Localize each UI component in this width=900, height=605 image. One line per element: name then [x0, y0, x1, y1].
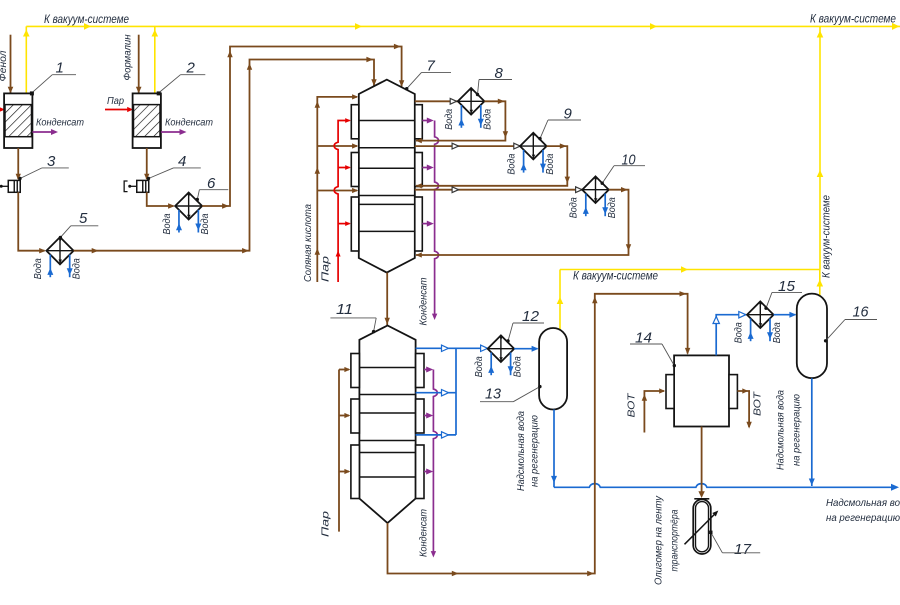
svg-text:Конденсат: Конденсат [418, 277, 430, 325]
pipe: column 7 vapor line 1 (brown) [415, 100, 458, 102]
reactor 14 [674, 355, 729, 426]
pipe: vessel 2 bottoms to pump 4 (brown) [146, 148, 148, 179]
svg-text:К вакуум-системе: К вакуум-системе [810, 14, 896, 26]
svg-text:К вакуум-системе: К вакуум-системе [821, 195, 833, 278]
column 7 internal trays [359, 120, 415, 122]
svg-text:Фенол: Фенол [0, 50, 9, 81]
svg-text:16: 16 [853, 304, 870, 321]
water outlet of exchanger 15 [769, 319, 771, 342]
water inlet of exchanger 9 [523, 150, 525, 173]
water outlet of exchanger 6 [197, 210, 199, 233]
heat exchanger 12 [488, 335, 515, 362]
feeder 17 (olygomer discharge) [694, 498, 709, 500]
pipe: ВОТ outlet from reactor 14 (brown) [737, 391, 749, 427]
vessel 16 (separator) [797, 294, 827, 379]
svg-text:Конденсат: Конденсат [418, 509, 430, 557]
svg-text:Олигомер на ленту: Олигомер на ленту [653, 495, 665, 585]
water inlet of exchanger 10 [585, 194, 587, 217]
pipe: vessel 13 vapor riser (yellow) [559, 270, 561, 332]
pipe: надсмольная вода main line (blue) [554, 484, 897, 488]
svg-text:Вода: Вода [545, 153, 556, 174]
svg-text:17: 17 [734, 541, 752, 558]
pipe: Соляная кислота feed to column 7 (brown) [317, 97, 357, 282]
pipe: pump 4 to heat exchanger 6 (brown) [147, 192, 174, 206]
pipe: column 7 vapor line 2 (brown) [415, 145, 520, 147]
svg-text:1: 1 [56, 60, 64, 77]
svg-text:ВОТ: ВОТ [626, 392, 638, 418]
pipe: reactor 14 bottoms to feeder 17 (brown) [701, 427, 703, 493]
svg-text:Вода: Вода [772, 322, 783, 343]
pipe: condensate header of column 11 (purple) [433, 370, 437, 556]
column 7 (distillation column) [359, 80, 415, 273]
adjustment arrow of feeder 17 [685, 513, 717, 545]
svg-text:Пар: Пар [320, 256, 332, 282]
vessel 1 (hatched heater) [4, 93, 32, 148]
pipe: column 11 bottoms to reactor 14 (brown) [388, 294, 688, 574]
svg-text:Вода: Вода [72, 258, 83, 279]
pipe: Пар feed to column 11 (brown) [338, 370, 340, 532]
svg-text:на регенерацию: на регенерацию [826, 512, 900, 524]
vessel 13 (separator) [539, 328, 567, 410]
pipe: HX12 to vessel 13 (blue) [514, 348, 537, 350]
svg-text:7: 7 [427, 58, 436, 75]
column 11 internal trays [359, 367, 415, 369]
column 11 (distillation column) [359, 326, 415, 524]
svg-text:Надсмольная вода: Надсмольная вода [515, 411, 527, 491]
water outlet of exchanger 10 [604, 194, 606, 217]
svg-text:Конденсат: Конденсат [36, 117, 84, 129]
svg-text:Вода: Вода [444, 108, 455, 129]
pipe: column 7 vapor line 3 (brown) [415, 189, 582, 191]
svg-text:Вода: Вода [506, 153, 517, 174]
svg-text:2: 2 [186, 60, 196, 77]
pipe: Формалин feed into vessel 2 (brown) [138, 35, 140, 93]
column 11 section jackets [351, 354, 360, 388]
pipe: pump 3 to heat exchanger 5 (brown) [18, 192, 44, 250]
svg-text:Пар: Пар [320, 511, 332, 537]
pipe: vessel 16 vapor riser (yellow) [819, 270, 821, 297]
pipe: vessel 16 water out (blue) [811, 378, 813, 486]
connection point on vessel 2 [157, 91, 161, 95]
pipe: Пар feed to column 7 (red) [334, 121, 349, 283]
pipe: column 11 vapor lines to HX12 (blue) [416, 347, 488, 349]
pump 3 [8, 180, 20, 192]
svg-text:Вода: Вода [483, 108, 494, 129]
svg-text:Вода: Вода [474, 356, 485, 377]
pipe: HX5 outlet long run to column 7 (brown) [74, 60, 374, 251]
svg-text:Конденсат: Конденсат [165, 117, 213, 129]
pipe: HX15 to vessel 16 (blue) [774, 314, 796, 316]
pipe: HX9 return to column 7 (brown) [416, 146, 567, 186]
svg-text:Вода: Вода [33, 258, 44, 279]
pipe: HX6 outlet run to column 7 (brown) [202, 47, 401, 207]
pipe: vessel 1 bottoms to pump 3 (brown) [17, 148, 19, 179]
svg-text:на регенерацию: на регенерацию [529, 415, 541, 487]
svg-text:Вода: Вода [569, 197, 580, 218]
pump 4 [137, 180, 149, 192]
pipe: condensate out of vessel 1 (purple) [32, 131, 52, 133]
svg-text:Надсмольная вода: Надсмольная вода [775, 390, 787, 470]
svg-text:на регенерацию: на регенерацию [791, 394, 803, 466]
pipe: vessel 1 vapor riser (yellow) [25, 26, 27, 93]
svg-text:ВОТ: ВОТ [752, 390, 764, 416]
svg-text:13: 13 [485, 386, 502, 403]
pipe: vacuum header to К вакуум-системе (yellow) [26, 25, 900, 27]
pipe: reactor 14 vapor to HX15 (blue) [716, 315, 746, 356]
water outlet of exchanger 5 [69, 255, 71, 278]
pipe: vacuum branch from vessels 13/16 (yellow) [560, 269, 820, 271]
svg-text:Соляная кислота: Соляная кислота [302, 204, 314, 282]
pipe: vessel 2 vapor riser (yellow) [154, 26, 156, 93]
svg-text:11: 11 [336, 301, 353, 318]
water outlet of exchanger 9 [542, 150, 544, 173]
water outlet of exchanger 8 [480, 105, 482, 128]
svg-text:Вода: Вода [162, 213, 173, 234]
pipe: condensate header of column 7 (purple) [435, 121, 439, 318]
pipe: Пар into vessel 1 (red) [0, 109, 3, 111]
heat exchanger 15 [747, 301, 774, 328]
heat exchanger 5 [46, 237, 73, 264]
svg-text:Надсмольная во: Надсмольная во [826, 497, 900, 509]
heat exchanger 8 [458, 88, 485, 115]
heat exchanger 6 [175, 193, 202, 220]
water inlet of exchanger 15 [750, 319, 752, 342]
pipe: condensate out of vessel 2 (purple) [161, 131, 181, 133]
svg-text:Вода: Вода [512, 356, 523, 377]
water inlet of exchanger 6 [178, 210, 180, 233]
water inlet of exchanger 12 [490, 353, 492, 376]
svg-text:12: 12 [522, 308, 540, 325]
svg-text:Вода: Вода [607, 197, 618, 218]
svg-text:Формалин: Формалин [122, 34, 134, 80]
pipe: Пар into vessel 2 (red) [105, 109, 131, 111]
water inlet of exchanger 5 [49, 255, 51, 278]
connection point on vessel 1 [30, 91, 34, 95]
column 7 section jackets [351, 105, 359, 139]
heat exchanger 10 [582, 176, 609, 203]
heat exchanger 9 [520, 133, 547, 160]
vessel 2 (hatched heater) [133, 93, 161, 148]
svg-text:Пар: Пар [107, 95, 124, 107]
svg-text:К вакуум-системе: К вакуум-системе [44, 14, 129, 26]
pipe: Фенол feed into vessel 1 (brown) [10, 35, 12, 93]
svg-text:Вода: Вода [200, 213, 211, 234]
svg-text:транспортёра: транспортёра [669, 509, 681, 571]
pipe: HX8 return to column 7 (brown) [416, 101, 505, 140]
pipe: column 7 bottoms to column 11 (brown) [386, 273, 388, 325]
svg-text:5: 5 [79, 210, 88, 227]
pipe: HX10 return to column 7 (brown) [416, 190, 629, 255]
pipe: ВОТ inlet to reactor 14 (brown) [644, 391, 664, 433]
svg-text:Вода: Вода [733, 322, 744, 343]
water outlet of exchanger 12 [510, 353, 512, 376]
water inlet of exchanger 8 [460, 105, 462, 128]
svg-text:К вакуум-системе: К вакуум-системе [573, 271, 658, 283]
pipe: надсмольная вода from vessel 13 (blue) [553, 410, 555, 488]
pipe: right vacuum riser (yellow) [819, 26, 821, 269]
